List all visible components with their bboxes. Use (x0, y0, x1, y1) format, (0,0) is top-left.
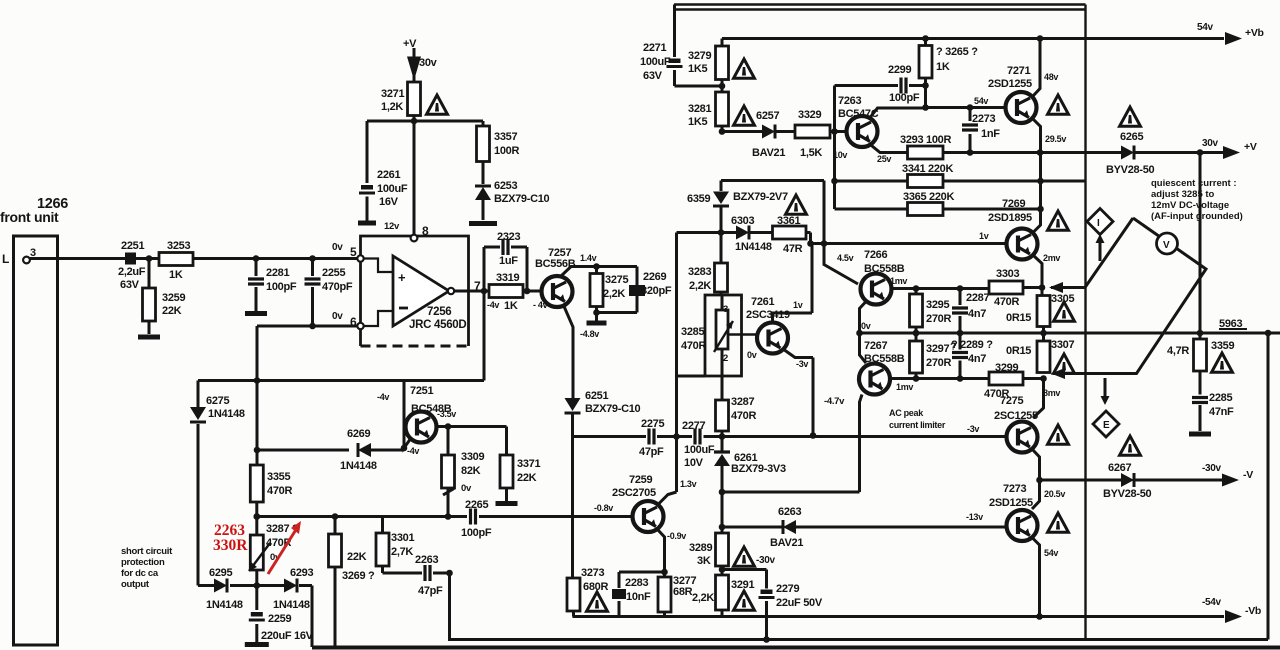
warning triangle near 7271 (1048, 95, 1069, 114)
wire 3271 bottom rail y121 (367, 116, 483, 235)
node 3341 left (831, 178, 838, 185)
resistor 3293 (908, 146, 944, 159)
svg-text:(AF-input grounded): (AF-input grounded) (1151, 211, 1243, 222)
svg-text:470R: 470R (731, 410, 756, 422)
svg-text:3283: 3283 (688, 266, 711, 278)
warning triangle near 3307 (1054, 354, 1075, 373)
svg-text:1uF: 1uF (499, 255, 518, 267)
node emitter 7251 (445, 423, 452, 430)
wire rail y333 (860, 332, 1280, 335)
svg-text:6263: 6263 (778, 506, 801, 518)
svg-text:quiescent current :: quiescent current : (1151, 178, 1237, 189)
resistor 3305 0R15 (1042, 288, 1044, 342)
resistor 3307 0R15 (1037, 341, 1050, 373)
meter lead upper (1051, 218, 1133, 288)
svg-text:54v: 54v (1197, 22, 1214, 33)
svg-text:7261: 7261 (751, 296, 774, 308)
svg-text:3291: 3291 (731, 579, 754, 591)
wire y492 line (722, 491, 860, 494)
resistor 3295 (915, 289, 918, 334)
wire -30v line y480 (1040, 479, 1223, 482)
wire x257 to 3355 (256, 381, 259, 466)
potentiometer 3287 left (250, 535, 263, 570)
svg-text:1nF: 1nF (981, 128, 1000, 140)
resistor 3361 (773, 226, 807, 239)
svg-text:54v: 54v (974, 96, 988, 106)
resistor 3289 (716, 533, 729, 566)
node 3275 top (593, 263, 600, 270)
svg-text:BZX79-3V3: BZX79-3V3 (731, 463, 786, 475)
node 2287 bottom (957, 330, 964, 337)
wire 2299 line (835, 86, 926, 132)
diode 6267 (1121, 473, 1134, 487)
voltmeter circle V (1157, 233, 1178, 254)
wire 6251 down to 3273 (571, 414, 574, 578)
node x813 caps (810, 432, 817, 439)
diode 6275 (197, 381, 200, 586)
capacitor 2275 (646, 429, 657, 445)
svg-text:470R: 470R (267, 485, 292, 497)
svg-text:BYV28-50: BYV28-50 (1103, 488, 1152, 500)
svg-text:30v: 30v (419, 57, 438, 69)
wire 3287 to caps line (721, 431, 724, 450)
svg-text:6269: 6269 (347, 428, 370, 440)
wire 7266 collector line y288 (892, 287, 990, 290)
wire 7251 emitter to resistors (437, 427, 507, 456)
svg-text:3329: 3329 (798, 109, 821, 121)
warning triangle near 6265 (1120, 107, 1141, 126)
svg-text:+Vb: +Vb (1245, 27, 1264, 39)
svg-text:3287: 3287 (731, 396, 754, 408)
warning triangle near 7275 (1048, 425, 1069, 444)
node rail x1200 (1197, 330, 1204, 337)
svg-text:820pF: 820pF (641, 285, 672, 297)
wire 3365 line y209 (835, 208, 1041, 211)
resistor 3365 (908, 203, 944, 216)
svg-text:3361: 3361 (777, 215, 800, 227)
wire 3277 bottom (663, 612, 666, 617)
node 3341 x1040 (1037, 178, 1044, 185)
wire bottom rail (312, 646, 1280, 650)
op-amp box U7256 (361, 236, 469, 346)
node x676 caps (673, 433, 680, 440)
wire 6293 down to rail (311, 586, 314, 648)
node 3275 bottom (593, 309, 600, 316)
svg-text:3301: 3301 (391, 532, 414, 544)
node 3319 right (524, 288, 531, 295)
diode 6303 (736, 226, 749, 240)
svg-text:0v: 0v (332, 242, 343, 253)
svg-text:3303: 3303 (996, 268, 1019, 280)
svg-text:1N4148: 1N4148 (340, 460, 377, 472)
svg-text:20.5v: 20.5v (1044, 489, 1065, 499)
wire mid line y516 (257, 515, 632, 518)
svg-text:2: 2 (723, 353, 728, 364)
zener 6251 (565, 398, 581, 411)
wire 3299 right (1023, 377, 1044, 380)
node 7269 emitter (1039, 284, 1046, 291)
node 3355 bottom (253, 513, 260, 520)
node input junction (146, 255, 153, 262)
pot box 3285 (720, 292, 723, 295)
svg-text:3281: 3281 (688, 103, 711, 115)
svg-text:2273: 2273 (972, 113, 995, 125)
wire y572 link (619, 571, 665, 574)
svg-text:? 3265 ?: ? 3265 ? (936, 46, 978, 58)
node 3289 bottom (719, 566, 726, 573)
svg-text:48v: 48v (1044, 72, 1058, 82)
node 2279 bottom (763, 636, 770, 643)
node 2281 tap (253, 255, 260, 262)
svg-text:470R: 470R (681, 340, 706, 352)
svg-text:2,2K: 2,2K (692, 592, 714, 604)
wire caps line y437 (573, 435, 1007, 438)
svg-text:8mv: 8mv (1043, 388, 1060, 398)
resistor 3309 (442, 455, 455, 488)
zener 6359 (720, 181, 723, 233)
node 3297 bottom (913, 375, 920, 382)
warning triangle near 3359 (1212, 353, 1233, 372)
node 3355-3287 junction (253, 513, 260, 520)
svg-text:47pF: 47pF (639, 446, 664, 458)
resistor 3265 (924, 39, 927, 108)
resistor 3357 (482, 121, 485, 126)
svg-text:+V: +V (1244, 141, 1257, 153)
svg-text:BZX79-2V7: BZX79-2V7 (733, 191, 788, 203)
svg-text:4n7: 4n7 (968, 353, 986, 365)
svg-text:3371: 3371 (517, 458, 540, 470)
diode 6293 (257, 584, 312, 587)
capacitor 2281 (255, 259, 258, 312)
svg-text:-3v: -3v (967, 424, 979, 434)
wire x676 vertical (675, 233, 678, 493)
bar below 3275 (587, 321, 607, 326)
warning triangle above 3361 (786, 195, 807, 214)
svg-text:2,7K: 2,7K (391, 546, 413, 558)
zener 6253 (482, 162, 485, 221)
svg-text:2263: 2263 (415, 554, 438, 566)
wire 3277 riser (663, 572, 666, 577)
svg-text:12v: 12v (384, 221, 400, 232)
capacitor 2263 (422, 565, 433, 581)
node 3279 bottom (719, 83, 726, 90)
wire 3371 bottom bar (505, 488, 508, 501)
svg-text:5: 5 (350, 245, 357, 259)
svg-text:7269: 7269 (1002, 198, 1025, 210)
svg-text:2SC3419: 2SC3419 (746, 309, 790, 321)
svg-text:-54v: -54v (1202, 597, 1222, 608)
warning triangle -30v (734, 547, 755, 566)
svg-text:6265: 6265 (1120, 131, 1143, 143)
node output feedback (481, 288, 488, 295)
svg-text:-13v: -13v (966, 512, 983, 522)
wire 7259 emitter (658, 530, 665, 572)
node 3309 bottom on line (445, 513, 452, 520)
svg-text:82K: 82K (461, 465, 481, 477)
svg-text:100pF: 100pF (266, 281, 297, 293)
ground below 2261 with 12v label (358, 221, 376, 226)
svg-text:-4.7v: -4.7v (824, 396, 845, 407)
node 3361 corner (807, 240, 814, 247)
svg-text:2283: 2283 (625, 577, 648, 589)
wire 7269 base line y243 (811, 233, 1007, 244)
svg-text:270R: 270R (926, 313, 951, 325)
svg-text:0R15: 0R15 (1006, 312, 1031, 324)
wire 7261 collector (773, 244, 813, 323)
node emitter 7266 rail (856, 330, 863, 337)
svg-text:2285: 2285 (1209, 392, 1232, 404)
svg-text:3259: 3259 (162, 292, 185, 304)
node 2273 bottom (967, 149, 974, 156)
svg-text:6359: 6359 (687, 193, 710, 205)
svg-text:0v: 0v (861, 321, 871, 331)
svg-text:+: + (398, 270, 406, 285)
svg-text:BAV21: BAV21 (770, 537, 803, 549)
node x722 caps line (719, 433, 726, 440)
capacitor 2279 (759, 589, 775, 601)
wire 7266 base from x824 (824, 244, 858, 285)
svg-text:6267: 6267 (1108, 462, 1131, 474)
node 2287 top (957, 285, 964, 292)
svg-text:10V: 10V (684, 457, 704, 469)
capacitor 2287 (959, 289, 962, 334)
wire 7271 collector (1033, 39, 1040, 97)
svg-text:100R: 100R (494, 145, 519, 157)
wire 7267 collector y378 (892, 377, 990, 380)
wire 3287 branch (255, 517, 258, 586)
svg-text:2277: 2277 (682, 420, 705, 432)
svg-text:100uF: 100uF (377, 183, 408, 195)
arrow +Vb (1225, 32, 1242, 45)
resistor 3259 (143, 288, 156, 321)
svg-text:2271: 2271 (643, 42, 666, 54)
wire 3309 bottom (443, 488, 454, 517)
wire pot box bottom link (677, 375, 706, 378)
wire 7267 emitter (860, 395, 863, 493)
svg-text:for dc ca: for dc ca (121, 568, 159, 579)
svg-text:-Vb: -Vb (1245, 605, 1261, 617)
svg-text:1mv: 1mv (896, 382, 913, 392)
svg-text:2265: 2265 (465, 499, 488, 511)
svg-text:3359: 3359 (1211, 340, 1234, 352)
svg-text:6293: 6293 (290, 567, 313, 579)
svg-text:100pF: 100pF (889, 92, 920, 104)
svg-text:2255: 2255 (322, 267, 345, 279)
warning triangle near 7273 (1048, 513, 1069, 532)
warning triangle near 3273 (587, 592, 608, 611)
svg-text:470R: 470R (994, 296, 1019, 308)
svg-text:54v: 54v (1044, 548, 1058, 558)
resistor 3371 (500, 455, 513, 488)
svg-text:current limiter: current limiter (889, 420, 946, 430)
node 3277 top (661, 569, 668, 576)
svg-text:1mv: 1mv (890, 276, 907, 286)
resistor 3283 (720, 233, 723, 264)
warning triangle near diamond E (1120, 436, 1141, 455)
svg-text:6257: 6257 (756, 110, 779, 122)
svg-text:3275: 3275 (605, 274, 628, 286)
svg-text:3297: 3297 (926, 343, 949, 355)
svg-text:BZX79-C10: BZX79-C10 (585, 403, 641, 415)
wire 7261 emitter (783, 349, 813, 436)
svg-text:6275: 6275 (206, 395, 229, 407)
svg-text:1.4v: 1.4v (580, 253, 597, 263)
capacitor 2265 (468, 509, 479, 525)
svg-text:-V: -V (1243, 469, 1253, 481)
svg-text:22K: 22K (162, 305, 182, 317)
arrow -V (1222, 474, 1239, 487)
capacitor 2259 (255, 586, 258, 643)
svg-text:3307: 3307 (1051, 339, 1074, 351)
wire 3273 bottom (572, 611, 575, 617)
svg-text:BZX79-C10: BZX79-C10 (494, 193, 550, 205)
svg-text:BAV21: BAV21 (752, 147, 785, 159)
wire 3291 bottom (721, 610, 724, 617)
svg-text:3293 100R: 3293 100R (900, 134, 951, 146)
svg-text:1K: 1K (169, 269, 183, 281)
svg-text:L: L (2, 252, 9, 266)
red arrow annotation (268, 528, 297, 574)
svg-text:3271: 3271 (381, 88, 404, 100)
arrow down to diamond E (1104, 378, 1107, 398)
svg-text:10nF: 10nF (626, 591, 651, 603)
ground below 6253 (469, 221, 497, 226)
wire 2271 to 3279 bottom (675, 85, 723, 88)
svg-text:4n7: 4n7 (968, 308, 986, 320)
warning triangle near 3305 (1054, 302, 1075, 321)
resistor 3355 (250, 465, 263, 502)
svg-text:3319: 3319 (496, 272, 519, 284)
node 7263 base 2299 (831, 128, 838, 135)
svg-text:2299: 2299 (888, 64, 911, 76)
capacitor 2261 (366, 121, 369, 221)
wire top box outline (674, 5, 1086, 640)
svg-text:JRC 4560D: JRC 4560D (409, 319, 466, 331)
zener 6261 (721, 450, 724, 451)
svg-text:2mv: 2mv (1043, 253, 1060, 263)
ground below 2285 (1189, 432, 1211, 437)
svg-text:? 2289 ?: ? 2289 ? (951, 339, 993, 351)
node 3365 x1040 (1037, 206, 1044, 213)
svg-text:1N4148: 1N4148 (735, 241, 772, 253)
node y480 (1036, 477, 1043, 484)
wire 3259 branch (148, 259, 151, 335)
svg-text:1K: 1K (504, 300, 518, 312)
svg-text:29.5v: 29.5v (1045, 134, 1066, 144)
svg-text:3299: 3299 (995, 362, 1018, 374)
svg-text:-4v: -4v (487, 300, 499, 310)
node collector junction x925 (922, 104, 929, 111)
svg-text:2SD1895: 2SD1895 (988, 212, 1032, 224)
node 22K tap (332, 513, 339, 520)
wire +30v to 3271 (413, 70, 416, 82)
svg-text:6303: 6303 (731, 215, 754, 227)
wire 3341 line y181 (835, 180, 1086, 183)
svg-text:3279: 3279 (688, 50, 711, 62)
svg-text:100pF: 100pF (461, 527, 492, 539)
svg-text:3341 220K: 3341 220K (902, 163, 953, 175)
svg-text:47R: 47R (783, 243, 803, 255)
svg-text:7267: 7267 (864, 340, 887, 352)
svg-text:3285: 3285 (681, 326, 704, 338)
svg-text:-4v: -4v (407, 446, 419, 456)
resistor 3281 (716, 92, 729, 126)
wire y180 link (721, 181, 824, 244)
wire input line (30, 257, 361, 260)
svg-text:2SC1255: 2SC1255 (994, 410, 1038, 422)
diode 6263 (722, 526, 1007, 529)
capacitor 2299 (898, 78, 909, 94)
wire 7257 emitter (563, 304, 573, 398)
svg-text:2,2K: 2,2K (603, 288, 625, 300)
node x722 y527 (719, 524, 726, 531)
wire 7267 base (860, 333, 867, 363)
svg-text:25v: 25v (877, 154, 891, 164)
meter lead diagonal with voltmeter (1053, 218, 1206, 374)
svg-text:-0.9v: -0.9v (667, 531, 686, 541)
node 3295 top (913, 285, 920, 292)
svg-text:1K: 1K (936, 61, 950, 73)
arrow up into diamond (1099, 241, 1102, 261)
node 2289 bottom (957, 375, 964, 382)
node rail x1043 (1040, 330, 1047, 337)
node 3281 bottom (719, 128, 726, 135)
capacitor 2271 (673, 5, 676, 87)
svg-text:-30v: -30v (756, 555, 776, 566)
svg-text:2323: 2323 (497, 231, 520, 243)
resistor 3297 (915, 333, 918, 379)
arrow -Vb (1225, 610, 1242, 623)
svg-text:3365 220K: 3365 220K (903, 191, 954, 203)
node 2273 tap (967, 104, 974, 111)
wire base 7257 (527, 290, 542, 293)
svg-text:2275: 2275 (641, 418, 664, 430)
wire 3301 branch (383, 517, 450, 574)
warning triangle near 3271 (427, 95, 448, 114)
svg-text:2269: 2269 (643, 271, 666, 283)
node x722 y492 (719, 489, 726, 496)
svg-text:-3.5v: -3.5v (437, 409, 456, 419)
svg-text:270R: 270R (926, 357, 951, 369)
svg-text:1N4148: 1N4148 (273, 599, 310, 611)
resistor 3273 (571, 577, 574, 578)
svg-text:30v: 30v (1202, 138, 1219, 149)
svg-text:7273: 7273 (1003, 483, 1026, 495)
svg-text:1v: 1v (793, 300, 803, 310)
svg-text:1N4148: 1N4148 (206, 599, 243, 611)
capacitor 2323 loop (484, 247, 527, 291)
resistor 3301 (376, 533, 389, 566)
wire -54v rail (573, 615, 1225, 618)
node -54v rail (1036, 613, 1043, 620)
diamond E lower (1093, 411, 1119, 437)
svg-text:1v: 1v (979, 231, 989, 241)
svg-text:68R: 68R (673, 586, 693, 598)
node 2255 to pin6 line (309, 323, 316, 330)
svg-text:220uF 16V: 220uF 16V (261, 630, 314, 642)
svg-text:0v: 0v (747, 350, 757, 360)
node 6295 junction (253, 582, 260, 589)
node 7271 collector top (1037, 35, 1044, 42)
wire 7275 emitter (1032, 449, 1040, 480)
resistor 3341 (908, 175, 944, 188)
svg-text:7266: 7266 (864, 249, 887, 261)
svg-text:6253: 6253 (494, 180, 517, 192)
wire 7269 emitter (1034, 256, 1042, 288)
svg-text:3: 3 (723, 304, 728, 315)
diode 6265 (1121, 146, 1134, 160)
node 7251 base (401, 445, 408, 452)
